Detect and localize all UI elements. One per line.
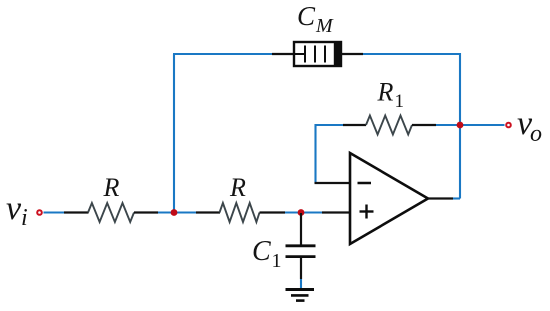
wire lead R1 left — [343, 124, 366, 126]
capacitor CM (Miller capacitor box) — [294, 42, 341, 66]
ground — [286, 290, 315, 301]
wire blue output corner — [453, 197, 460, 199]
node B junction dot — [298, 209, 305, 216]
wire lead CM left — [272, 53, 294, 55]
wire lead from R right — [134, 211, 158, 213]
wire lead to op-amp plus input — [322, 211, 350, 213]
label CM — [297, 1, 334, 37]
svg-text:M: M — [315, 15, 334, 37]
wire lead to R left — [64, 211, 89, 213]
resistor R (second) — [220, 203, 260, 222]
wire lead R1 right — [412, 124, 436, 126]
svg-text:1: 1 — [395, 91, 405, 112]
wire blue around node B — [285, 211, 322, 213]
op-amp U1 — [350, 153, 428, 244]
label R (second resistor) — [229, 173, 246, 202]
wire input blue — [44, 211, 65, 213]
wire C1 top lead — [300, 213, 302, 246]
capacitor C1 — [286, 246, 316, 257]
node A junction dot — [171, 209, 178, 216]
wire lead op-amp minus input — [315, 182, 351, 184]
label R1 — [377, 78, 405, 113]
svg-text:C: C — [252, 236, 271, 267]
label vo — [517, 105, 542, 147]
node vi input terminal — [37, 210, 42, 215]
wire blue feedback riser to minus input — [314, 124, 316, 183]
wire blue to ground — [300, 279, 302, 288]
resistor R1 — [366, 116, 412, 135]
svg-text:o: o — [530, 121, 542, 147]
svg-text:1: 1 — [272, 250, 282, 272]
svg-text:i: i — [21, 205, 28, 231]
svg-text:R: R — [229, 173, 246, 202]
label R (input resistor) — [103, 173, 120, 202]
wire C1 bottom lead — [300, 258, 302, 279]
label C1 — [252, 236, 282, 272]
resistor R (input) — [88, 203, 134, 222]
wire lead to R2 left — [196, 211, 220, 213]
wire lead CM right — [341, 53, 363, 55]
node C output junction dot — [457, 122, 464, 129]
svg-text:R: R — [377, 78, 394, 107]
svg-text:R: R — [103, 173, 120, 202]
node vo output terminal — [506, 123, 511, 128]
wire lead from R2 right — [260, 211, 286, 213]
wire blue vertical right riser — [459, 53, 461, 199]
wire blue around node A — [158, 211, 196, 213]
wire blue R1 row left — [315, 124, 344, 126]
wire lead op-amp output — [428, 197, 453, 199]
wire blue vertical left riser — [173, 54, 175, 213]
wire blue R1 row right to output — [436, 124, 505, 126]
svg-text:v: v — [6, 190, 22, 227]
label vi — [6, 190, 28, 231]
wire top row blue right — [363, 53, 460, 55]
wire top row blue left — [173, 53, 272, 55]
svg-text:C: C — [297, 1, 316, 31]
